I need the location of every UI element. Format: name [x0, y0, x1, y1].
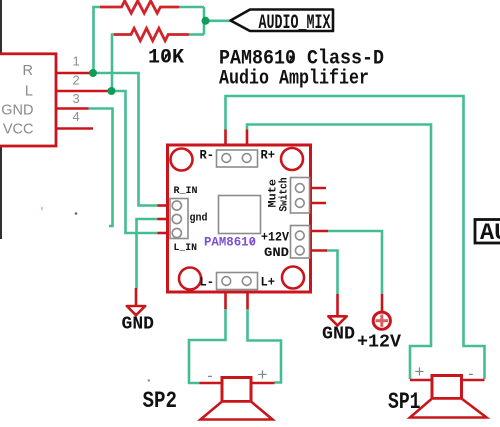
speaker SP1 terminals: [410, 379, 485, 382]
svg-text:1: 1: [73, 54, 80, 69]
connector pin 4 lead: [56, 127, 93, 130]
pin stub L_IN left: [158, 232, 169, 235]
stray red speck: [41, 207, 42, 210]
module U1 PAM8610 board outline: [168, 145, 311, 292]
svg-text:+12V: +12V: [357, 333, 401, 353]
junction dot pin 1: [89, 69, 97, 77]
mounting hole top-right: [281, 148, 303, 170]
svg-text:AUDIO: AUDIO: [480, 220, 500, 247]
svg-text:4: 4: [73, 109, 80, 124]
wire R2 right lead to vertical: [189, 33, 205, 36]
resistor R2: [114, 28, 189, 40]
stray mark near SP2: [148, 379, 150, 381]
wire from junction to AUDIO_MIX flag: [204, 19, 230, 22]
svg-text:PAM8610: PAM8610: [204, 236, 256, 250]
svg-text:R+: R+: [261, 148, 276, 163]
wire R1 right lead to vertical: [179, 6, 204, 9]
junction dot pin 2: [108, 87, 116, 95]
pin stub gnd left: [158, 218, 169, 221]
wire gnd pin to GND symbol: [137, 219, 158, 289]
ground symbol right (from GND pin): [328, 294, 346, 325]
svg-text:VCC: VCC: [3, 122, 34, 138]
wire L- net to SP2 minus: [189, 309, 226, 384]
wire pin 3 to dangling end: [89, 109, 113, 227]
connector pin 2 lead: [56, 90, 112, 93]
wire pin 1 to R_IN: [93, 73, 158, 206]
pin stub mute 2 right: [310, 202, 327, 205]
terminal block mute (right): [291, 178, 310, 214]
pin stub R- top: [224, 130, 227, 147]
pad label Mute Switch (rotated): [268, 178, 291, 212]
svg-text:R-: R-: [200, 148, 215, 163]
speaker SP2 terminals: [200, 382, 275, 385]
svg-text:Audio Amplifier: Audio Amplifier: [219, 68, 369, 91]
wire +12V pin to supply symbol: [328, 231, 383, 294]
svg-text:-: -: [207, 368, 212, 385]
wire pin 2 to L_IN: [112, 91, 158, 233]
window frame edge left: [0, 0, 2, 239]
svg-text:3: 3: [73, 91, 80, 106]
module U1 red pin stubs: [158, 130, 329, 310]
terminal block R (top): [217, 150, 258, 167]
svg-text:AUDIO_MIX: AUDIO_MIX: [259, 12, 331, 35]
svg-text:GND: GND: [1, 103, 33, 119]
svg-text:R: R: [23, 63, 33, 79]
pin stub GND right: [310, 249, 328, 252]
terminal block power (right): [291, 226, 310, 259]
connector pin 1 lead: [56, 72, 93, 75]
wire R- net to SP1 minus: [226, 96, 485, 379]
svg-text:+: +: [258, 365, 268, 384]
svg-text:GND: GND: [322, 325, 355, 345]
svg-text:SP1: SP1: [388, 389, 421, 415]
mounting hole bottom-right: [282, 267, 304, 289]
wire L+ net to SP2 plus: [248, 309, 282, 383]
junction dot on AUDIO_MIX net: [202, 17, 210, 25]
terminal block input (left): [170, 199, 188, 239]
pin stub mute 1 right: [310, 187, 327, 190]
svg-text:L-: L-: [200, 275, 215, 290]
svg-text:L: L: [25, 84, 33, 100]
svg-text:Switch: Switch: [279, 178, 291, 212]
svg-text:L_IN: L_IN: [174, 242, 198, 254]
svg-text:R_IN: R_IN: [174, 185, 198, 197]
speaker SP1 body: [410, 376, 487, 418]
+12V supply symbol: [373, 294, 390, 329]
svg-text:SP2: SP2: [143, 388, 178, 414]
speaker SP2 body: [201, 378, 273, 420]
wire from R1 left lead down to pin 1: [94, 7, 101, 73]
svg-text:GND: GND: [122, 315, 155, 335]
pin stub +12V right: [310, 230, 329, 233]
pin stub R_IN left: [158, 204, 169, 207]
pin stub R+ top: [246, 130, 249, 147]
slashed zero in PAM8610: [251, 239, 254, 244]
stray mark left: [75, 212, 78, 215]
svg-text:GND: GND: [264, 246, 290, 260]
resistor R1: [100, 1, 179, 13]
connector J1 body: [0, 54, 56, 146]
terminal block L (bottom): [217, 273, 258, 290]
pin stub L- bottom: [224, 291, 227, 309]
svg-text:+: +: [415, 362, 425, 381]
pin stub L+ bottom: [246, 291, 249, 309]
net flag AUDIO (clipped at right edge): [475, 220, 500, 248]
wire net AUDIO_MIX vertical join between R1 and R2: [203, 7, 206, 35]
slashed zero in 10K: [163, 53, 169, 62]
mounting hole top-left: [171, 149, 193, 171]
svg-text:L+: L+: [261, 275, 276, 290]
wire from R2 left lead down to pin 2: [112, 35, 115, 92]
net flag AUDIO_MIX: [231, 10, 334, 35]
slashed zero in title: [289, 54, 294, 63]
wire R+ net to SP1 plus: [247, 125, 431, 380]
ground symbol left (from gnd pin): [127, 288, 145, 315]
svg-text:gnd: gnd: [190, 213, 208, 225]
IC chip outline: [219, 196, 261, 234]
wire GND pin to right GND symbol: [327, 251, 338, 295]
mounting hole bottom-left: [179, 268, 201, 290]
svg-text:+12V: +12V: [261, 231, 289, 245]
connector pin 3 lead: [56, 107, 89, 110]
svg-text:2: 2: [73, 73, 80, 88]
svg-text:-: -: [468, 366, 473, 383]
